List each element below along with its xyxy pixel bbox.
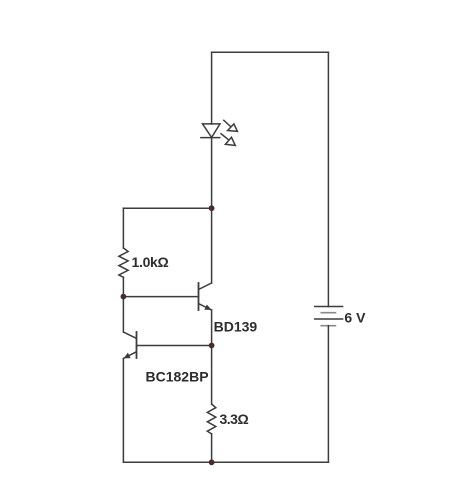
resistor R1 1.0k [119, 248, 128, 277]
node junction Q1 emitter/Q2 base [210, 344, 214, 348]
wire LED anode [211, 52, 213, 124]
wire junction to R2 [211, 346, 213, 405]
wire junction to Q1 collector [211, 208, 213, 283]
wire R2 bottom lead [211, 434, 213, 462]
svg-text:3.3Ω: 3.3Ω [220, 411, 249, 427]
LED D1 [201, 120, 238, 145]
svg-text:6 V: 6 V [344, 309, 366, 325]
wire LED cathode to junction [211, 138, 213, 209]
node junction R1/Q1 base [121, 295, 125, 299]
wire Q1 emitter to junction [211, 310, 213, 346]
wire top rail [212, 51, 329, 53]
wire node to R1 [123, 207, 211, 209]
wire battery bottom lead [327, 326, 329, 463]
wire Q2 emitter down [122, 358, 124, 462]
wire Q2 base [137, 345, 212, 347]
wire Q1 base [123, 296, 198, 298]
battery V1 [315, 307, 343, 326]
transistor Q2 BC182BP [123, 332, 136, 358]
wire battery top lead [327, 52, 329, 306]
transistor Q1 BD139 [199, 283, 212, 310]
resistor R2 3.3 [207, 404, 216, 434]
wire Q2 collector [122, 297, 124, 332]
svg-text:BC182BP: BC182BP [146, 369, 209, 385]
svg-text:1.0kΩ: 1.0kΩ [132, 254, 169, 270]
wire R1 top lead [122, 208, 124, 248]
svg-text:BD139: BD139 [214, 319, 258, 335]
wire bottom rail [123, 461, 328, 463]
node junction R2/bottom rail [210, 460, 214, 464]
node junction LED/R1 [210, 206, 214, 210]
wire R1 bottom lead [122, 277, 124, 296]
